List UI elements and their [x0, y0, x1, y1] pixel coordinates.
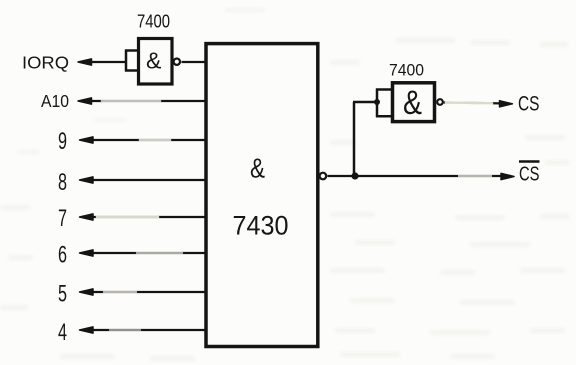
svg-text:IORQ: IORQ	[22, 53, 69, 73]
svg-text:A10: A10	[41, 91, 69, 111]
svg-text:5: 5	[58, 281, 67, 308]
svg-text:&: &	[403, 84, 422, 122]
svg-text:9: 9	[58, 128, 67, 155]
svg-text:CS: CS	[518, 93, 540, 116]
svg-text:4: 4	[58, 319, 67, 346]
svg-text:8: 8	[58, 169, 67, 196]
svg-text:CS: CS	[519, 164, 540, 186]
svg-text:7400: 7400	[137, 12, 170, 32]
svg-text:7400: 7400	[389, 61, 424, 80]
svg-text:&: &	[250, 153, 265, 184]
svg-text:6: 6	[58, 242, 67, 269]
svg-text:7430: 7430	[233, 211, 289, 241]
svg-text:&: &	[146, 48, 161, 74]
svg-text:7: 7	[58, 205, 67, 232]
